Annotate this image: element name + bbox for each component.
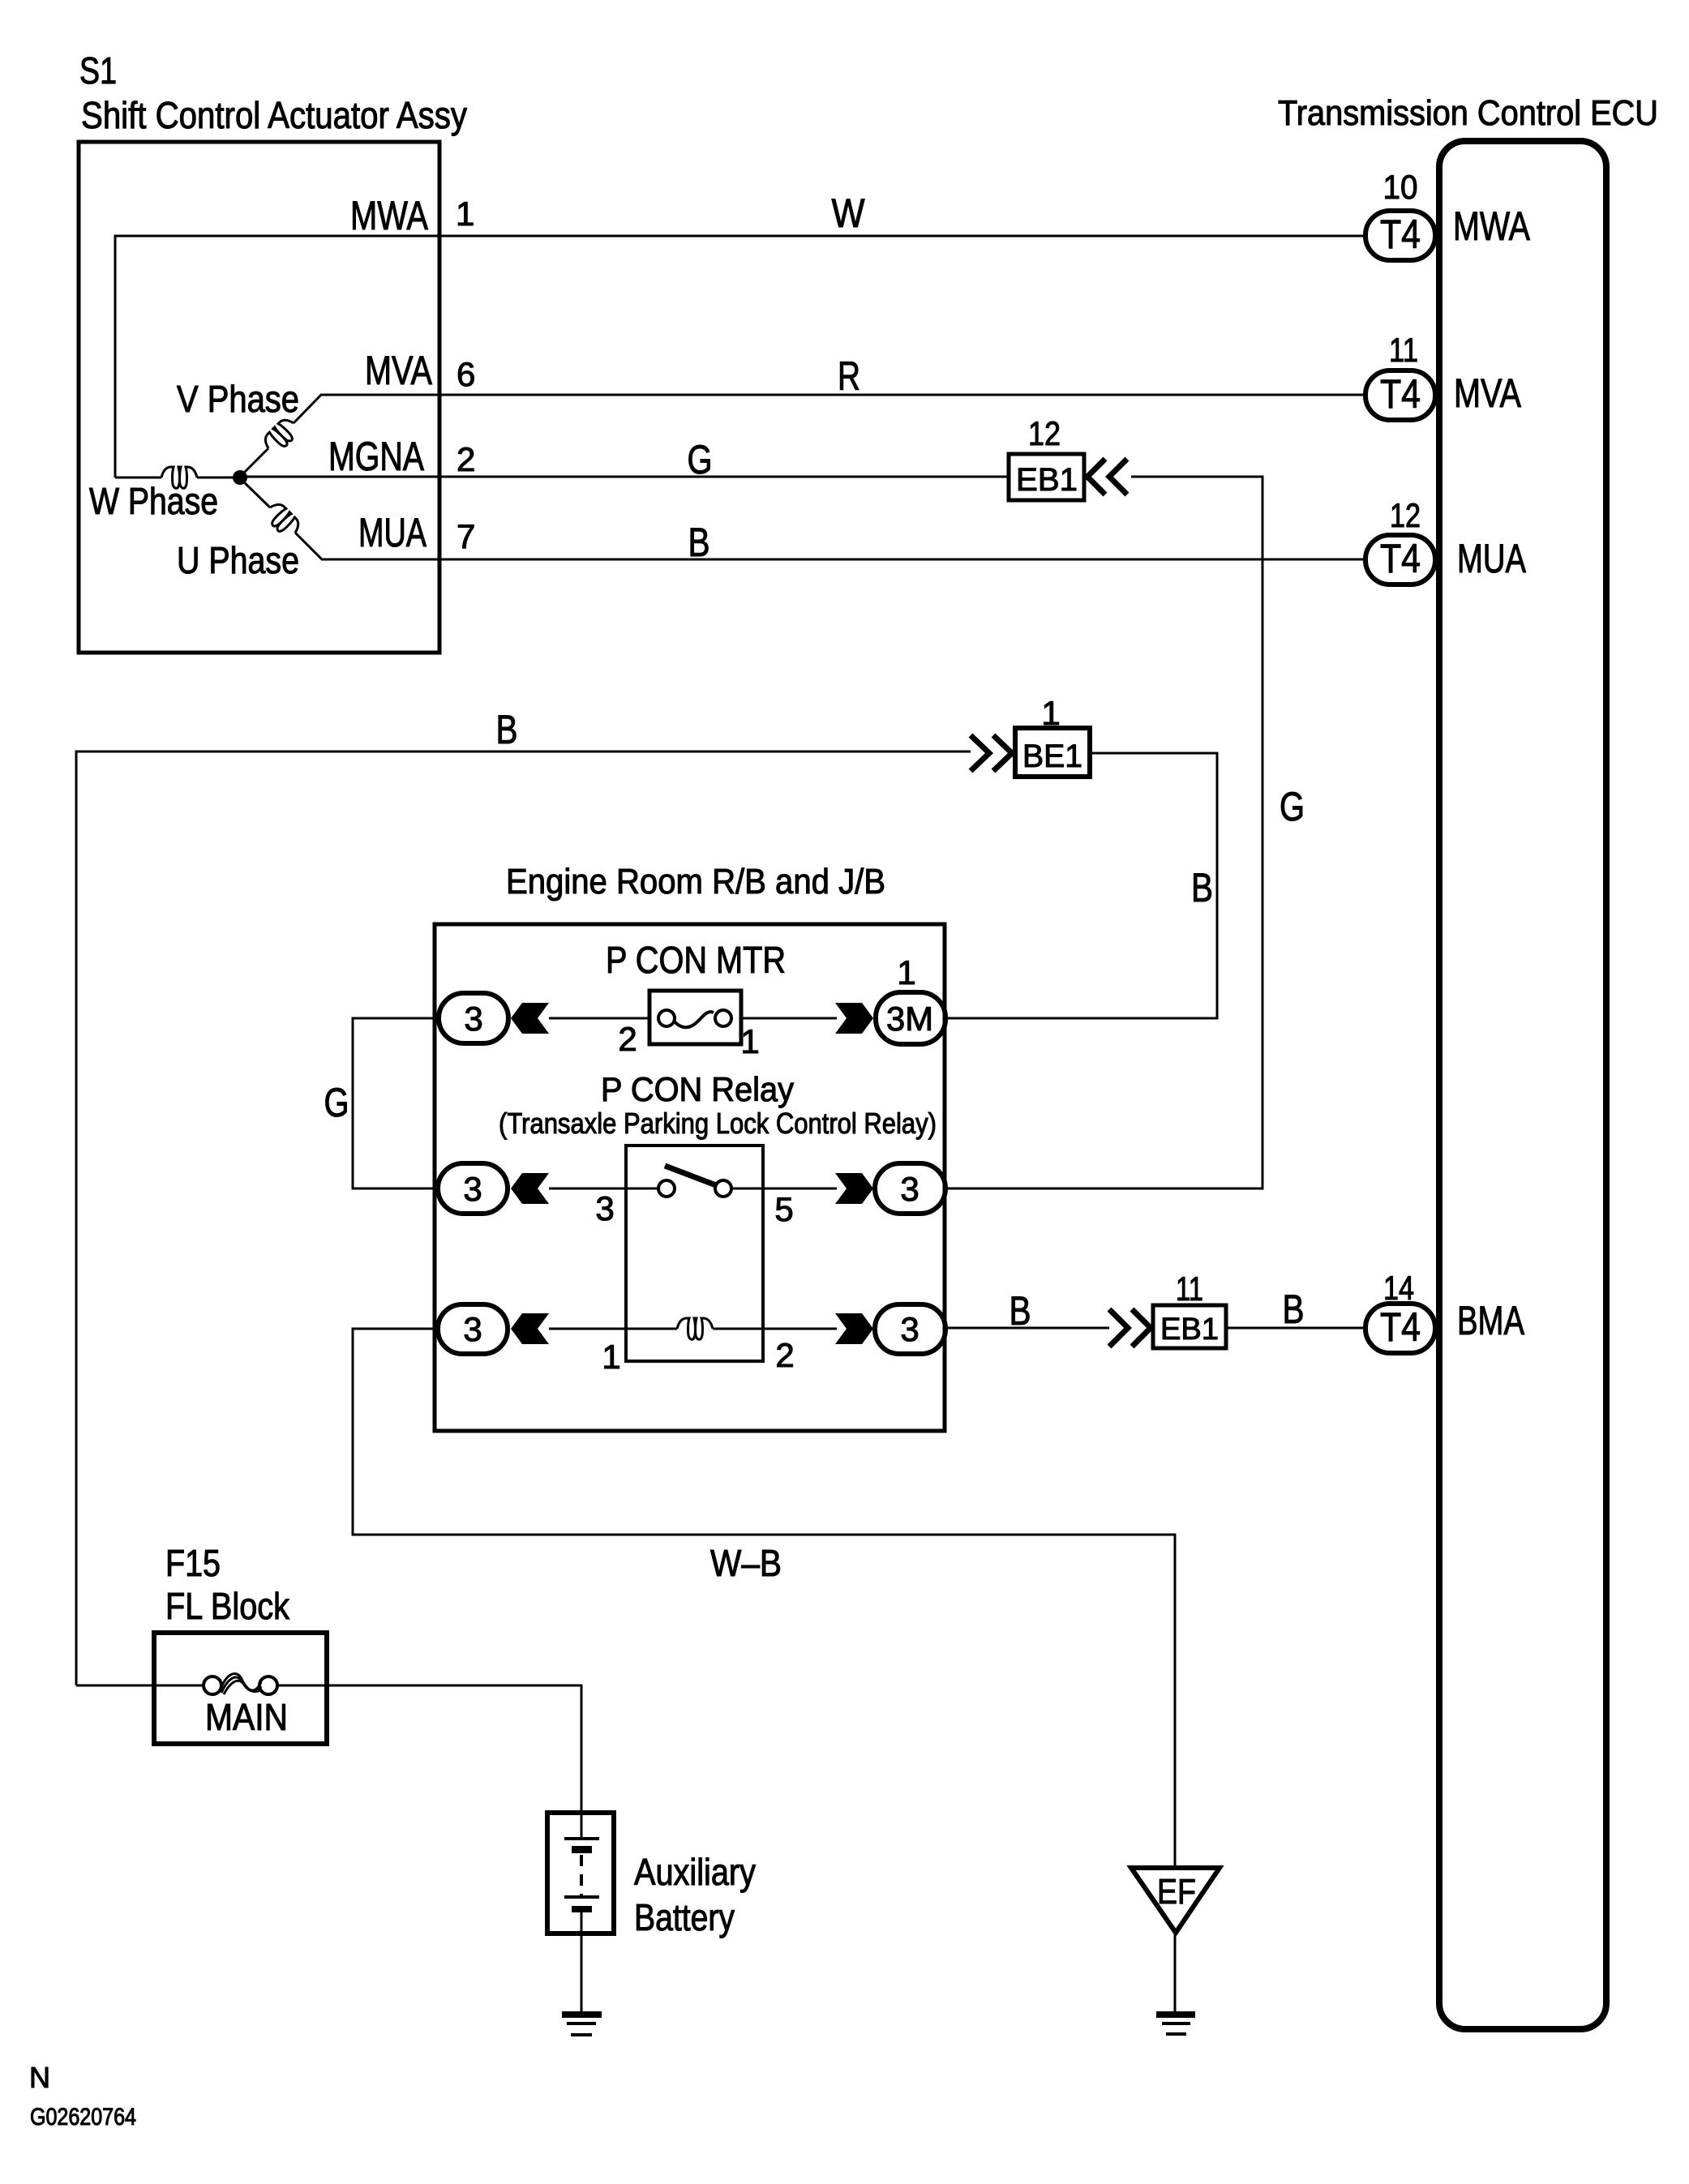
wire EF to ground xyxy=(1174,1933,1177,2012)
Transmission Control ECU box xyxy=(1439,141,1606,2029)
connector oval 3 (fuse row left) xyxy=(439,993,508,1043)
svg-text:12: 12 xyxy=(1028,414,1061,452)
svg-text:MGNA: MGNA xyxy=(328,434,425,479)
Auxiliary Battery box xyxy=(547,1813,614,1933)
svg-text:T4: T4 xyxy=(1380,371,1421,417)
W phase winding xyxy=(115,477,161,479)
svg-text:U Phase: U Phase xyxy=(177,539,299,581)
svg-text:P CON Relay: P CON Relay xyxy=(601,1070,794,1108)
svg-text:MWA: MWA xyxy=(350,193,429,238)
svg-text:Auxiliary: Auxiliary xyxy=(634,1851,756,1893)
connector T4 (BMA) xyxy=(1365,1304,1435,1353)
wire B to FL block fuse xyxy=(76,1685,204,1687)
svg-text:10: 10 xyxy=(1383,168,1418,206)
wire G bracket (row1 to row2) xyxy=(353,1018,439,1188)
wire coil row to EB1 xyxy=(945,1327,1109,1330)
svg-text:3: 3 xyxy=(595,1189,614,1227)
svg-text:2: 2 xyxy=(775,1336,794,1374)
svg-text:R: R xyxy=(838,353,860,399)
svg-text:11: 11 xyxy=(1389,331,1418,369)
arrow right (switch row) xyxy=(835,1173,873,1204)
svg-text:3M: 3M xyxy=(886,1000,933,1038)
svg-text:N: N xyxy=(29,2061,50,2094)
svg-text:B: B xyxy=(496,707,518,752)
arrow left (switch row) xyxy=(511,1173,549,1204)
ground (battery) xyxy=(562,2011,602,2018)
svg-text:EB1: EB1 xyxy=(1160,1313,1219,1347)
svg-text:BMA: BMA xyxy=(1457,1298,1524,1343)
Engine Room R/B and J/B box xyxy=(435,924,945,1431)
ground (EF) xyxy=(1156,2011,1195,2018)
connector oval 3M xyxy=(876,992,945,1044)
connector BE1 (junction 1) xyxy=(1015,728,1090,777)
svg-text:5: 5 xyxy=(774,1190,793,1228)
arrow right (fuse row) xyxy=(835,1003,873,1034)
battery internals xyxy=(581,1813,583,1839)
connector oval 3 (coil row right) xyxy=(875,1304,945,1354)
svg-text:P CON MTR: P CON MTR xyxy=(606,939,786,981)
wire MUA (U phase to ECU T4-12) xyxy=(295,533,1365,559)
svg-text:G02620764: G02620764 xyxy=(30,2104,136,2130)
svg-text:W Phase: W Phase xyxy=(89,480,218,522)
arrow left (coil row) xyxy=(511,1313,549,1344)
wire coil to arrow xyxy=(713,1328,837,1330)
svg-text:W: W xyxy=(832,191,866,236)
svg-text:3: 3 xyxy=(463,1310,482,1348)
svg-text:T4: T4 xyxy=(1380,536,1421,581)
svg-text:MVA: MVA xyxy=(365,348,433,393)
svg-text:EB1: EB1 xyxy=(1016,462,1078,498)
wire battery to ground xyxy=(581,1933,583,2012)
connector EB1 (junction 11) xyxy=(1153,1305,1226,1348)
svg-text:MUA: MUA xyxy=(358,510,427,555)
svg-text:B: B xyxy=(688,520,710,565)
connector T4 (MWA) xyxy=(1365,211,1435,260)
svg-text:F15: F15 xyxy=(165,1542,221,1584)
wire MVA (V phase to ECU T4-11) xyxy=(294,395,1365,423)
svg-text:W–B: W–B xyxy=(710,1542,782,1584)
wire MGNA (node to EB1) xyxy=(240,476,1009,478)
svg-text:3: 3 xyxy=(900,1170,919,1208)
connector oval 3 (switch row left) xyxy=(438,1163,508,1214)
svg-text:MVA: MVA xyxy=(1454,370,1522,416)
relay switch blade xyxy=(665,1166,716,1185)
svg-text:Transmission Control ECU: Transmission Control ECU xyxy=(1278,93,1658,133)
connector T4 (MUA) xyxy=(1365,535,1435,585)
svg-text:FL Block: FL Block xyxy=(165,1585,290,1627)
svg-text:S1: S1 xyxy=(79,49,117,92)
wire MAIN fuse to battery xyxy=(277,1685,581,1813)
svg-text:G: G xyxy=(1280,784,1305,829)
svg-text:T4: T4 xyxy=(1380,212,1421,257)
svg-text:Battery: Battery xyxy=(634,1896,735,1938)
svg-text:G: G xyxy=(688,437,713,482)
connector T4 (MVA) xyxy=(1365,370,1435,420)
svg-text:12: 12 xyxy=(1390,496,1421,534)
svg-text:7: 7 xyxy=(457,517,475,555)
svg-text:B: B xyxy=(1010,1288,1031,1334)
wire arrow to switch xyxy=(549,1188,658,1190)
svg-text:MAIN: MAIN xyxy=(205,1696,288,1738)
arrow right (coil row) xyxy=(835,1313,873,1344)
svg-text:EF: EF xyxy=(1157,1872,1196,1912)
double chevron arrows into EB1 xyxy=(1087,459,1127,495)
V phase winding xyxy=(240,448,268,477)
svg-text:T4: T4 xyxy=(1380,1304,1421,1350)
wire EB1 to T4 BMA xyxy=(1226,1327,1365,1330)
svg-text:BE1: BE1 xyxy=(1022,739,1082,774)
svg-text:(Transaxle Parking Lock Contro: (Transaxle Parking Lock Control Relay) xyxy=(499,1107,937,1140)
fusible link MAIN xyxy=(204,1677,221,1694)
U phase winding xyxy=(240,478,270,507)
svg-text:MUA: MUA xyxy=(1457,536,1526,581)
wire fuse to arrow xyxy=(741,1017,837,1020)
connector oval 3 (switch row right) xyxy=(875,1163,945,1214)
winding common node xyxy=(233,470,247,485)
fuse P CON MTR xyxy=(649,991,741,1044)
svg-text:MWA: MWA xyxy=(1453,203,1531,249)
svg-text:3: 3 xyxy=(463,1170,482,1208)
svg-text:14: 14 xyxy=(1383,1269,1414,1307)
double chevron arrows into EB1 (11) xyxy=(1109,1309,1151,1347)
svg-text:1: 1 xyxy=(602,1338,620,1376)
relay coil xyxy=(677,1318,713,1339)
wire B (battery feed to BE1) xyxy=(76,752,971,1685)
ground connector EF triangle xyxy=(1131,1868,1220,1933)
connector EB1 (junction 12) xyxy=(1009,454,1084,500)
svg-text:V Phase: V Phase xyxy=(177,378,299,420)
double chevron arrows into BE1 xyxy=(971,735,1012,771)
svg-text:3: 3 xyxy=(464,1000,482,1038)
S1 Shift Control Actuator Assy box xyxy=(79,142,439,653)
svg-text:2: 2 xyxy=(457,440,475,478)
wire 3M to BE1 vertical xyxy=(945,1017,1217,1020)
relay switch contacts xyxy=(658,1180,675,1197)
wire arrow to fuse xyxy=(549,1017,649,1020)
wire W-B (coil row to EF ground) xyxy=(353,1329,1175,1868)
svg-text:6: 6 xyxy=(457,355,475,393)
svg-text:1: 1 xyxy=(740,1022,759,1060)
FL Block box xyxy=(154,1633,327,1744)
connector oval 3 (coil row left) xyxy=(438,1304,508,1354)
svg-text:2: 2 xyxy=(618,1020,637,1058)
svg-text:G: G xyxy=(324,1080,349,1125)
svg-text:Engine Room R/B and J/B: Engine Room R/B and J/B xyxy=(506,862,885,901)
svg-text:1: 1 xyxy=(456,195,474,233)
svg-text:B: B xyxy=(1283,1287,1305,1332)
wire switch to arrow xyxy=(731,1188,837,1190)
svg-text:Shift Control Actuator Assy: Shift Control Actuator Assy xyxy=(81,94,467,136)
svg-text:3: 3 xyxy=(900,1310,919,1348)
wire G (EB1 to P CON relay switch) xyxy=(945,477,1262,1188)
svg-text:11: 11 xyxy=(1176,1270,1203,1308)
svg-text:1: 1 xyxy=(897,953,915,991)
wire BE1 to fuse 3M xyxy=(945,753,1217,1018)
wire arrow to coil xyxy=(549,1328,677,1330)
arrow left (fuse row) xyxy=(511,1003,549,1034)
P CON Relay box xyxy=(626,1146,763,1361)
svg-text:B: B xyxy=(1191,865,1213,910)
wire MWA (pin 1 to ECU T4-10) xyxy=(115,236,1365,477)
